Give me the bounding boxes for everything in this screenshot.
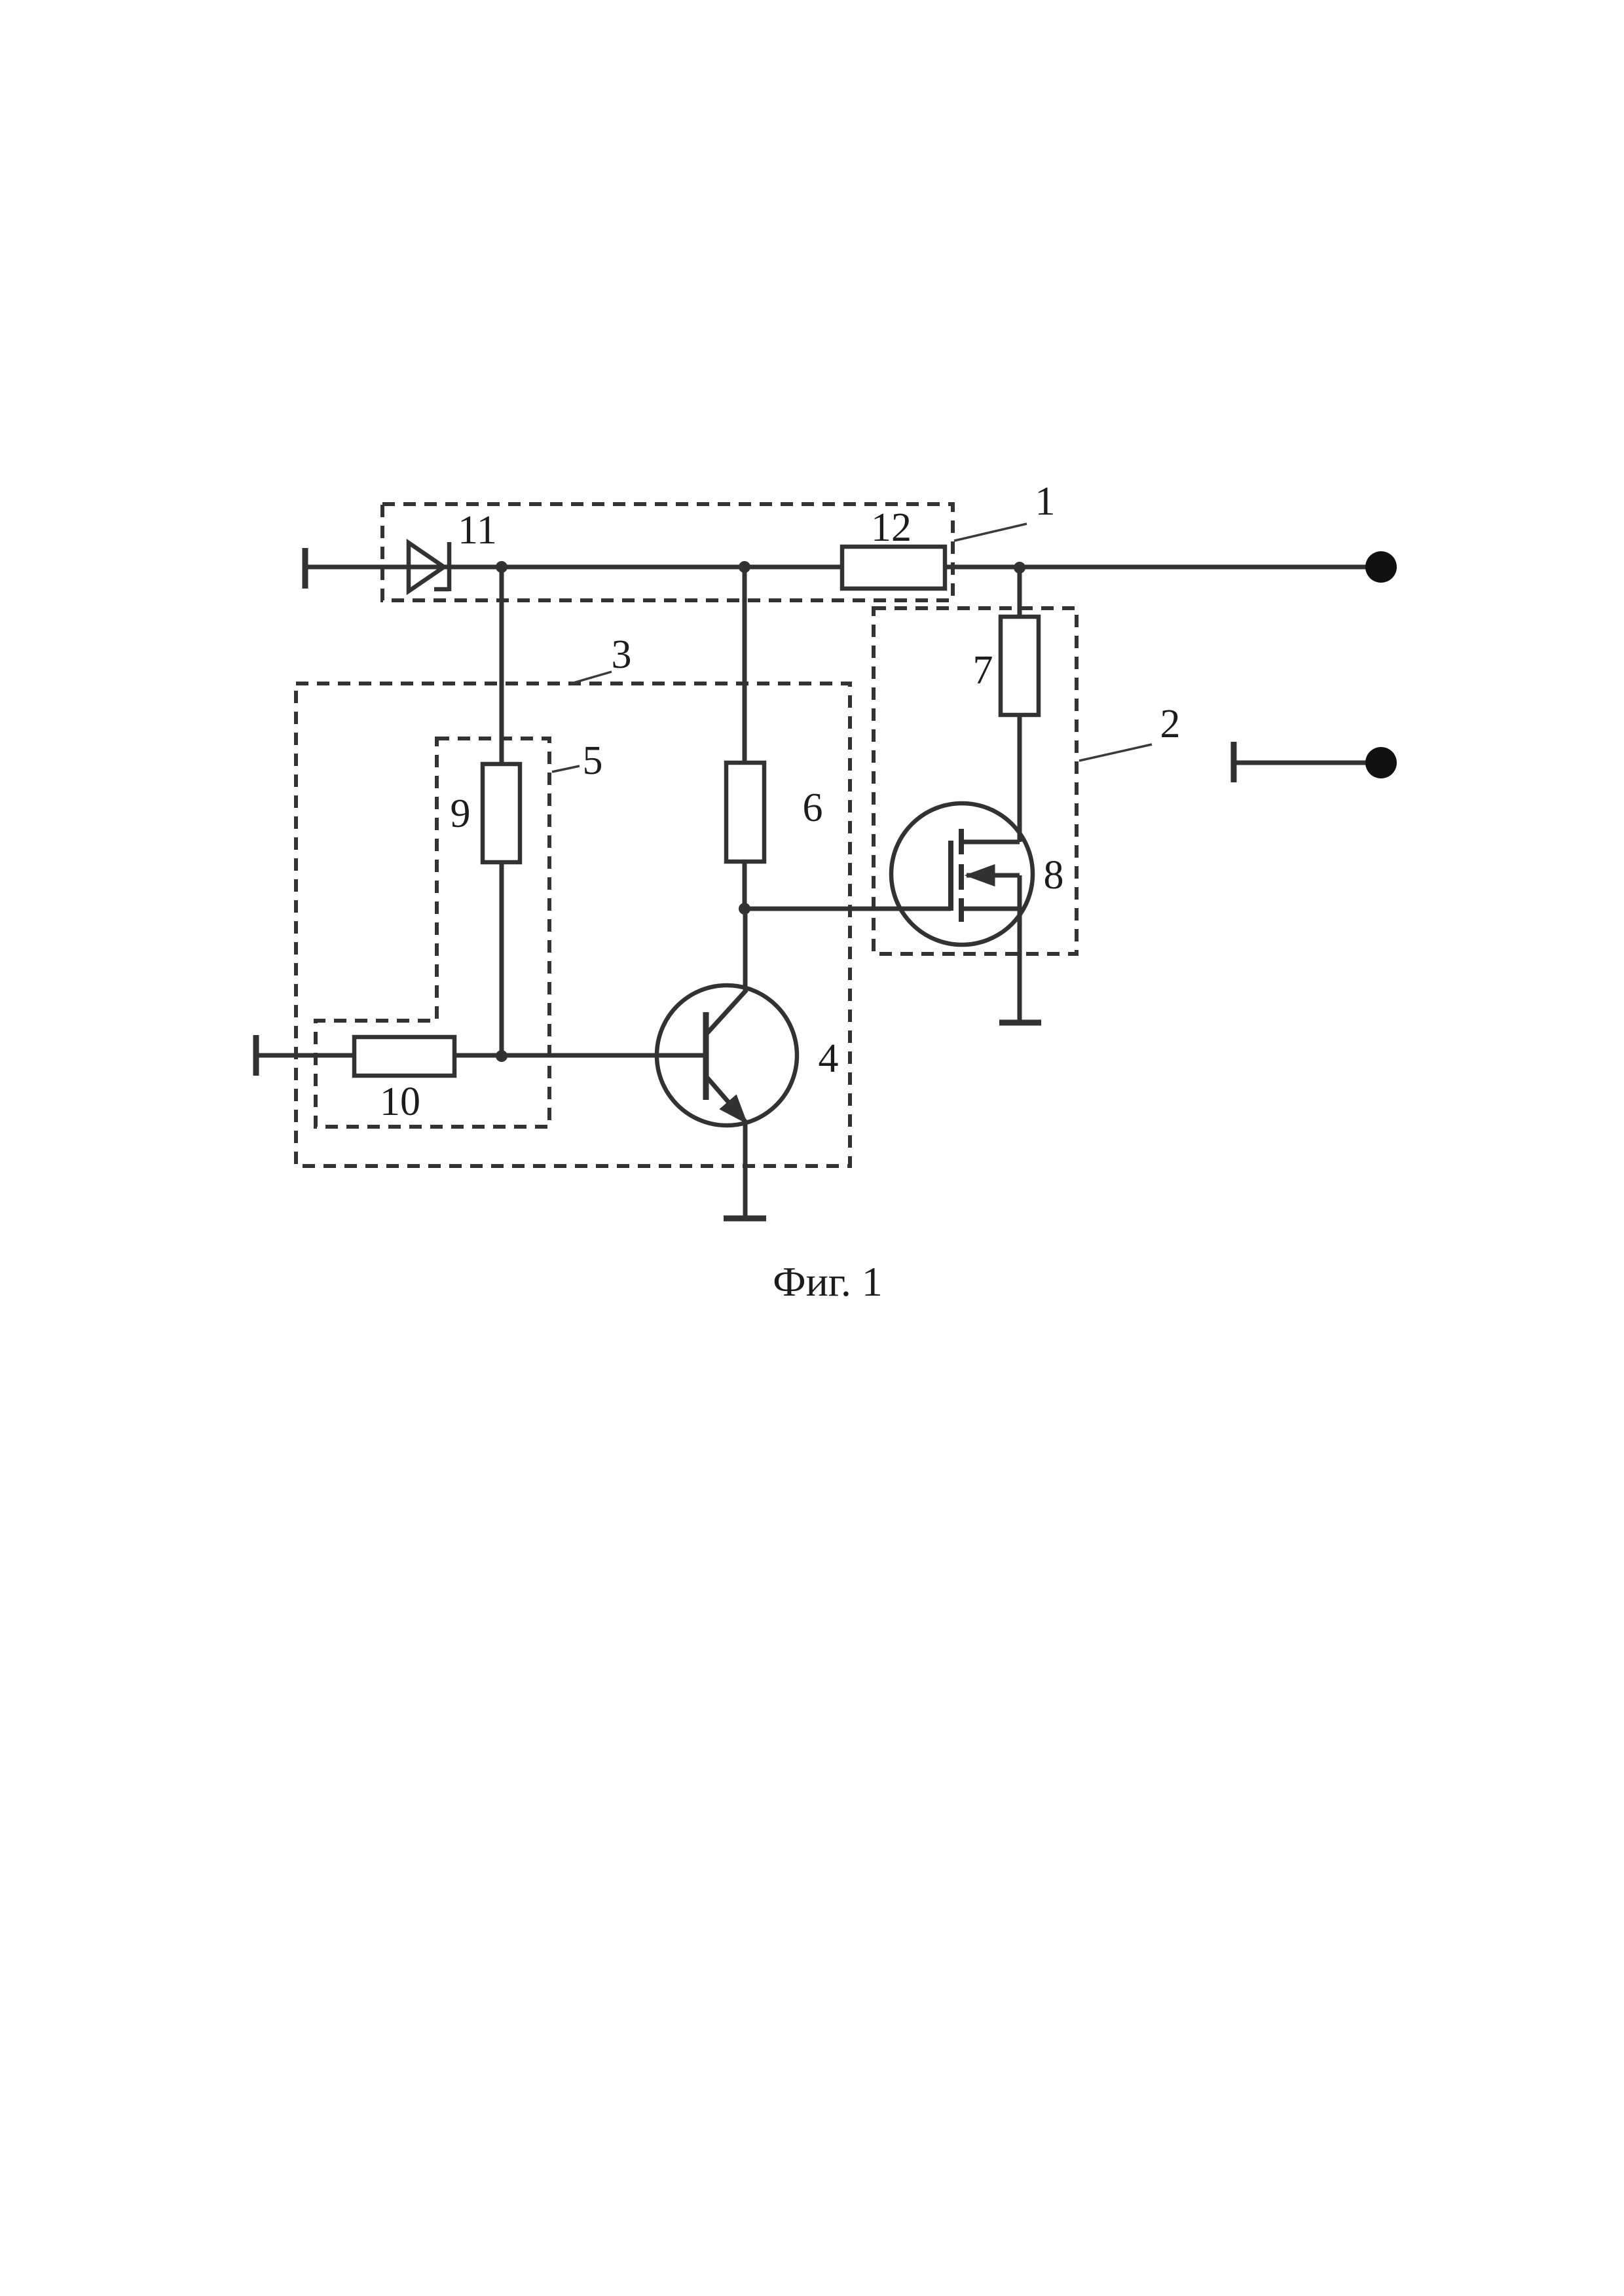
svg-text:7: 7 xyxy=(973,648,993,693)
dashed box 3 (control unit) xyxy=(296,683,850,1166)
node B (base node) xyxy=(496,1050,507,1062)
svg-text:12: 12 xyxy=(871,505,912,550)
leader for label 2 xyxy=(1079,744,1152,761)
resistor 7 xyxy=(1001,617,1039,715)
wire node C down to node D xyxy=(743,567,747,909)
node C (rail / R6 branch) xyxy=(739,561,750,573)
transistor Q8 (MOSFET) xyxy=(891,803,1033,945)
svg-text:1: 1 xyxy=(1035,479,1056,524)
terminal lower right bar xyxy=(1231,742,1237,782)
svg-text:Фиг. 1: Фиг. 1 xyxy=(773,1258,883,1305)
terminal control left xyxy=(253,1035,259,1076)
resistor 9 xyxy=(483,764,520,862)
wire node E down to drain xyxy=(1018,568,1022,842)
leader for label 3 xyxy=(571,672,612,683)
leader for label 5 xyxy=(552,766,580,772)
svg-text:4: 4 xyxy=(819,1036,839,1081)
terminal output lower right xyxy=(1365,747,1397,778)
dashed box 5+10 (divider group outline) xyxy=(316,738,549,1127)
transistor Q4 (BJT) xyxy=(657,985,797,1125)
wire base row xyxy=(256,1053,706,1058)
node E (rail / R7 branch) xyxy=(1014,562,1025,574)
node D (collector / gate node) xyxy=(739,903,750,915)
wire node A down to base node xyxy=(500,567,504,1056)
wire lower right xyxy=(1234,761,1375,765)
svg-text:5: 5 xyxy=(583,738,603,783)
svg-text:6: 6 xyxy=(803,786,823,830)
wire source to ground xyxy=(1018,909,1022,1021)
wire collector drop xyxy=(743,909,748,992)
svg-text:11: 11 xyxy=(458,508,497,553)
body arrow of Q8 xyxy=(967,866,994,885)
terminal output top right xyxy=(1365,551,1397,583)
node A (rail / R9 branch) xyxy=(496,561,507,573)
svg-text:10: 10 xyxy=(380,1080,420,1124)
wire top rail xyxy=(305,565,1375,570)
terminal input left xyxy=(303,548,308,589)
resistor 12 xyxy=(842,547,945,589)
svg-text:9: 9 xyxy=(451,792,471,836)
zener diode 11 xyxy=(409,542,449,591)
ground (source) xyxy=(999,1020,1041,1026)
svg-text:2: 2 xyxy=(1160,702,1181,746)
emitter arrow of Q4 xyxy=(721,1096,746,1122)
dashed box 1 (series protection unit) xyxy=(382,504,953,600)
resistor 10 xyxy=(354,1037,454,1076)
svg-text:3: 3 xyxy=(612,632,632,677)
wire emitter to ground xyxy=(743,1122,748,1217)
wire gate link xyxy=(745,907,951,911)
svg-text:8: 8 xyxy=(1044,853,1064,898)
ground (emitter) xyxy=(724,1216,766,1222)
dashed box 2 (output switch unit) xyxy=(874,608,1077,954)
resistor 6 xyxy=(726,763,764,862)
leader for label 1 xyxy=(954,524,1027,541)
